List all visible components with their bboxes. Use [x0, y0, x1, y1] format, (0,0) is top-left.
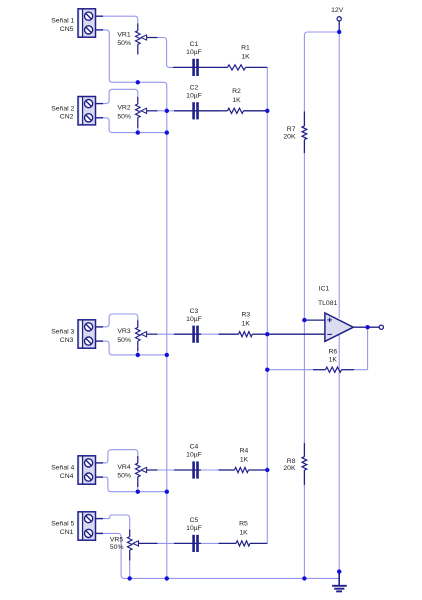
wire summing bus vertical — [266, 67, 268, 543]
potentiometer VR4 50% — [137, 456, 139, 463]
svg-text:1K: 1K — [240, 456, 249, 463]
node chain at channel4 return — [165, 490, 169, 494]
node bus at R2 — [265, 109, 269, 113]
svg-text:1K: 1K — [242, 321, 251, 328]
svg-text:50%: 50% — [117, 337, 131, 344]
wire CN4 bottom pin return — [103, 477, 167, 492]
svg-text:R7: R7 — [287, 126, 296, 133]
resistor R5 1K — [219, 542, 237, 544]
node bus at feedback — [265, 368, 269, 372]
svg-text:C4: C4 — [190, 444, 199, 451]
svg-text:10µF: 10µF — [186, 316, 202, 323]
wire VR2 bottom lead — [137, 125, 139, 133]
svg-text:R3: R3 — [241, 312, 250, 319]
node chain at channel3 return — [165, 353, 169, 357]
node bias divider at rail — [302, 576, 306, 580]
wire feedback from output node down — [367, 327, 369, 370]
node chain at channel2 row — [165, 109, 169, 113]
svg-text:Señal 5: Señal 5 — [51, 521, 74, 528]
svg-text:R1: R1 — [241, 45, 250, 52]
wire 12V branch to bias rail — [304, 32, 339, 111]
wire VR3 bottom lead — [137, 348, 139, 355]
terminal block CN3 — [78, 320, 96, 348]
wire VR3 wiper to C3 — [158, 333, 175, 335]
svg-text:CN4: CN4 — [60, 473, 74, 480]
resistor R3 1K — [219, 333, 239, 335]
svg-text:R2: R2 — [232, 88, 241, 95]
node output junction — [365, 325, 369, 329]
wire non-inverting input from bias divider — [304, 319, 325, 321]
svg-text:50%: 50% — [117, 473, 131, 480]
wire C2 to R2 — [201, 110, 219, 112]
wire VR5 wiper to C5 — [158, 542, 175, 544]
wire C1 to R1 — [201, 66, 219, 68]
resistor R1 1K — [219, 66, 228, 68]
wire CN3 top pin to VR3 top — [103, 314, 138, 327]
svg-text:C1: C1 — [190, 41, 199, 48]
wire op-amp output — [353, 326, 379, 328]
node bus at inverting input — [265, 332, 269, 336]
node bus at R4 — [265, 468, 269, 472]
wire C3 to R3 — [201, 333, 219, 335]
resistor R7 20K — [303, 111, 305, 126]
node VR2 bottom junction — [136, 130, 140, 134]
svg-text:1K: 1K — [241, 54, 250, 61]
svg-text:10µF: 10µF — [186, 93, 202, 100]
svg-text:CN5: CN5 — [60, 26, 74, 33]
terminal block CN2 — [78, 97, 96, 125]
wire ground chain vertical — [138, 82, 167, 578]
potentiometer VR2 50% — [137, 97, 139, 104]
node chain at rail — [165, 576, 169, 580]
svg-text:10µF: 10µF — [186, 49, 202, 56]
resistor R6 1K feedback — [267, 369, 313, 371]
resistor R4 1K — [219, 469, 235, 471]
capacitor C2 10uF — [192, 102, 195, 119]
resistor R8 20K — [303, 443, 305, 457]
svg-text:50%: 50% — [110, 544, 124, 551]
svg-text:VR1: VR1 — [117, 31, 130, 38]
wire VR4 bottom lead — [137, 484, 139, 492]
node ground junction — [337, 569, 341, 573]
wire C4 to R4 — [201, 469, 219, 471]
svg-text:C3: C3 — [190, 308, 199, 315]
svg-text:TL081: TL081 — [318, 300, 337, 307]
svg-text:VR2: VR2 — [117, 105, 130, 112]
wire VR1 wiper to C1 — [158, 38, 174, 68]
svg-text:C2: C2 — [190, 85, 199, 92]
svg-text:12V: 12V — [331, 7, 344, 14]
wire CN5 top pin to VR1 top — [103, 16, 138, 25]
wire VR5 bottom lead — [129, 557, 131, 578]
node VR5 bottom at rail — [128, 576, 132, 580]
terminal block CN4 — [78, 456, 96, 484]
svg-text:R4: R4 — [240, 447, 249, 454]
output terminal — [379, 325, 383, 329]
svg-text:10µF: 10µF — [186, 452, 202, 459]
svg-text:R5: R5 — [239, 521, 248, 528]
svg-text:CN3: CN3 — [60, 337, 74, 344]
wire VR2 wiper to C2 — [158, 110, 175, 112]
svg-text:VR4: VR4 — [117, 464, 130, 471]
svg-text:1K: 1K — [329, 356, 338, 363]
svg-text:C5: C5 — [190, 517, 199, 524]
wire VR4 wiper to C4 — [158, 469, 175, 471]
potentiometer VR5 50% — [129, 529, 131, 536]
wire CN4 top pin to VR4 top — [103, 450, 138, 463]
svg-text:10µF: 10µF — [186, 525, 202, 532]
wire CN5 bottom pin return — [103, 30, 138, 82]
svg-text:Señal 2: Señal 2 — [51, 105, 74, 112]
wire ground rail bottom — [103, 533, 339, 578]
wire op-amp V- pin down to ground node — [338, 335, 340, 572]
capacitor C3 10uF — [192, 326, 195, 343]
wire CN2 top pin to VR2 top — [103, 89, 138, 103]
node bias at non-inverting input — [302, 318, 306, 322]
terminal block CN5 — [78, 9, 96, 37]
wire CN3 bottom pin return — [103, 341, 167, 355]
ground symbol — [338, 572, 340, 586]
node VR3 bottom junction — [136, 353, 140, 357]
node chain at channel2 return — [165, 130, 169, 134]
node VR4 bottom junction — [136, 490, 140, 494]
wire bias rail middle (R7 to R8) — [303, 153, 305, 443]
svg-text:Señal 1: Señal 1 — [51, 18, 74, 25]
svg-text:VR5: VR5 — [110, 537, 123, 544]
capacitor C4 10uF — [192, 461, 195, 478]
svg-text:IC1: IC1 — [319, 285, 330, 292]
svg-text:20K: 20K — [283, 465, 296, 472]
svg-text:20K: 20K — [283, 133, 296, 140]
svg-text:50%: 50% — [117, 113, 131, 120]
wire C5 to R5 — [201, 542, 219, 544]
svg-text:1K: 1K — [232, 97, 241, 104]
potentiometer VR3 50% — [137, 320, 139, 327]
wire VR1 bottom lead — [137, 80, 139, 83]
svg-text:1K: 1K — [239, 530, 248, 537]
svg-text:Señal 3: Señal 3 — [51, 329, 74, 336]
wire inverting input from summing bus — [267, 333, 325, 335]
svg-text:R6: R6 — [328, 348, 337, 355]
svg-text:50%: 50% — [117, 40, 131, 47]
svg-text:CN1: CN1 — [60, 529, 74, 536]
op-amp IC1 TL081 — [325, 313, 353, 341]
wire CN1 top pin to VR5 top — [103, 515, 130, 529]
svg-text:VR3: VR3 — [117, 328, 130, 335]
capacitor C1 10uF — [192, 59, 195, 76]
resistor R2 1K — [219, 110, 228, 112]
potentiometer VR1 50% — [137, 24, 139, 31]
node 12V rail junction — [337, 30, 341, 34]
wire bias rail bottom (R8 to ground rail) — [303, 485, 305, 579]
svg-text:CN2: CN2 — [60, 114, 74, 121]
terminal block CN1 — [78, 512, 96, 540]
capacitor C5 10uF — [192, 535, 195, 552]
wire 12V supply rail down to op-amp V+ pin — [338, 32, 340, 318]
power terminal 12V — [338, 21, 340, 32]
node VR1 bottom junction — [136, 80, 140, 84]
wire CN2 bottom pin return — [103, 118, 167, 133]
svg-text:Señal 4: Señal 4 — [51, 465, 74, 472]
